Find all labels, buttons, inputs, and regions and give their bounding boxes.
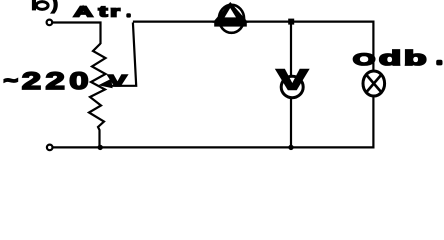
- svg-text:O: O: [353, 50, 375, 69]
- svg-text:b: b: [404, 47, 426, 69]
- svg-text:A: A: [74, 3, 93, 20]
- svg-text:V: V: [108, 71, 128, 89]
- svg-text:d: d: [379, 48, 401, 70]
- svg-text:V: V: [276, 64, 308, 96]
- svg-text:~: ~: [4, 70, 19, 92]
- svg-text:): ): [51, 0, 58, 14]
- svg-text:220: 220: [22, 68, 93, 95]
- svg-text:r: r: [110, 4, 120, 20]
- svg-text:t: t: [99, 3, 108, 19]
